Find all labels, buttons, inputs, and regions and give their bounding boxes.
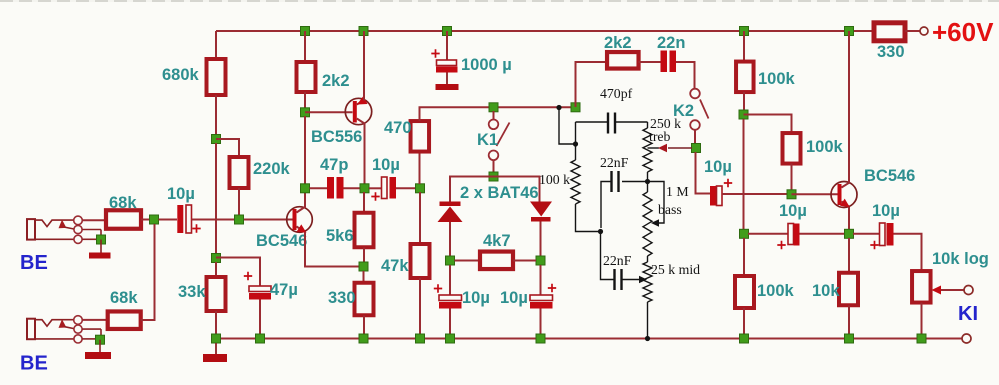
svg-text:47k: 47k [381,257,409,275]
node pot ground [917,334,926,343]
node P limiter right [536,256,545,265]
node black input dot [556,105,561,110]
wire node K down to R 47k [419,192,421,244]
svg-text:22n: 22n [657,34,685,52]
transistor Q1 collector lead [297,207,306,213]
node 47k ground [416,334,425,343]
wire node K up to R 470 [419,152,421,185]
wire jack1 tip to R 68k-1 [82,219,106,221]
ground main symbol [215,343,217,354]
wire jack2 tip to R 68k-2 [82,319,108,321]
wire 100k-2 to node R [791,164,793,195]
node T [740,229,749,238]
transistor Q3 BC546 circle [831,182,857,208]
capacitor 47u electrolytic [249,286,271,292]
node rail-1000u [443,27,452,36]
node Q treble wiper junction [692,144,701,153]
node black mid junction [598,229,603,234]
transistor Q3 emitter lead [842,202,850,207]
wire 680k to node A [215,95,217,139]
resistor 68k-2 [108,311,141,329]
wire 220k to node B [238,188,240,220]
wire C 22n to K2 [676,62,695,89]
transistor Q3 base bar [838,184,842,205]
node jack1 sleeve junction [97,235,106,244]
wire 100k-1 to node S [743,92,745,115]
resistor 250 k treb (black zigzag) [647,122,649,128]
wire node T to C 10u-6 [748,233,788,235]
wire Q1 collector up to node G [304,188,306,207]
wire node S down to node T [743,119,745,234]
svg-text:25 k mid: 25 k mid [651,262,700,277]
wire jack2 ground stub [99,340,101,352]
transistor Q1 emitter lead [297,227,306,233]
capacitor 10u-4 electrolytic [530,295,553,301]
wire 47k to rail [419,278,421,339]
input jack J1 (BE upper) [27,219,35,240]
resistor 330-1 [355,283,374,316]
wire node Q down to C 10u-5 [696,152,711,194]
capacitor 22nF upper [622,181,648,183]
svg-text:22nF: 22nF [603,253,632,268]
node rail-Q2emitter [359,27,368,36]
wire node I down to node G [304,116,306,188]
wire R 4k7 to node P [513,260,536,262]
svg-text:K1: K1 [477,131,498,149]
resistor 100 k (black zigzag) [571,160,580,204]
wire node L up to feedback branch [576,62,608,107]
wire black jog to 100k branch [559,108,576,145]
svg-text:2 x BAT46: 2 x BAT46 [460,184,539,202]
wire node C to C 47u [216,258,260,287]
wire R 470 top corner to tone input [420,107,576,121]
svg-text:BC556: BC556 [311,128,362,146]
switch K2 lower contact [690,120,700,130]
node black jog junction [573,141,578,146]
svg-text:10µ: 10µ [372,156,400,174]
wire jack1 ground stub [100,240,102,253]
node 47u ground [256,334,265,343]
input jack J2 (BE lower) [27,319,35,340]
resistor 2k2 feedback [607,52,639,69]
svg-text:10µ: 10µ [167,185,195,203]
wire 330-1 to rail [363,316,365,339]
node 10u-4 ground [536,334,545,343]
svg-text:47µ: 47µ [270,281,298,299]
capacitor 1000u electrolytic [437,60,457,66]
node jack2 sleeve junction [96,335,105,344]
svg-text:100 k: 100 k [539,172,570,187]
node G Q1 collector junction [301,184,310,193]
svg-text:10k: 10k [812,282,840,300]
wire node A to R 220k [216,139,239,157]
wire C 10u-6 to node U [800,233,846,235]
svg-text:10µ: 10µ [462,289,490,307]
wire treb wiper [648,147,660,149]
node rail-2k2 [301,27,310,36]
node 10u-3 ground [446,334,455,343]
resistor 68k-1 [106,210,141,229]
svg-text:2k2: 2k2 [604,34,632,52]
svg-text:680k: 680k [162,66,200,84]
svg-text:68k: 68k [110,289,138,307]
node A bias divider [212,135,221,144]
wire Q3 emitter down to node U [848,207,850,234]
capacitor 22n [661,51,668,73]
transistor Q2 base bar [353,101,357,123]
transistor Q1 BC546 circle [287,207,313,233]
pot wiper arrow [932,286,942,295]
wire limiter top rail [450,177,540,202]
wire node S to R 100k-2 [744,115,792,134]
wire C 10u-5 to node R [722,193,787,195]
wire node C to R 33k [215,262,217,277]
node I Q2 base junction [301,108,310,117]
svg-text:2k2: 2k2 [322,72,350,90]
wire 2k2 to node I [304,92,306,112]
wire node O to C 10u-3 [449,265,451,295]
node black J3 [645,179,650,184]
svg-text:1 M: 1 M [666,184,689,199]
svg-text:100k: 100k [757,282,795,300]
node U emitter junction [845,229,854,238]
resistor 25 k mid (black zigzag) [647,256,649,262]
svg-text:10µ: 10µ [704,158,732,176]
wire 25k to rail [647,302,649,339]
capacitor 10u-in electrolytic [177,205,183,233]
node B base junction [235,215,244,224]
transistor Q2 emitter lead (PNP arrow to bar) [357,100,365,105]
node 10k ground [845,334,854,343]
ground jack1 [89,253,111,259]
wire rail to C 1000u [446,31,448,60]
transistor Q1 base bar [293,209,297,230]
wire rail corner to R 680k [215,31,217,59]
svg-text:bass: bass [658,202,682,217]
resistor 4k7 [480,252,513,269]
wire Q2 collector down to node J [364,123,366,188]
svg-text:10k log: 10k log [932,250,989,268]
transistor Q3 collector lead [842,183,850,188]
svg-text:BC546: BC546 [256,232,307,250]
wire node P to C 10u-4 [540,265,542,295]
diode D1 BAT46 (cathode up) [440,202,461,207]
capacitor 10u-3 electrolytic [439,295,462,301]
svg-text:5k6: 5k6 [326,227,354,245]
svg-text:220k: 220k [253,160,291,178]
resistor 100k-2 [783,133,801,164]
svg-text:33k: 33k [178,283,206,301]
switch K1 upper contact [493,111,495,120]
resistor 100k-1 [736,62,754,93]
node D input sum [150,215,159,224]
switch K1 lower contact [489,151,499,161]
svg-text:10µ: 10µ [872,202,900,220]
svg-text:100k: 100k [806,138,844,156]
svg-text:10µ: 10µ [779,202,807,220]
ground jack2 [85,352,111,359]
node S bias mid [739,110,748,119]
capacitor 470pf branch [576,121,609,123]
node rail-Q3 [845,27,854,36]
wire 68k-2 up to node D [141,224,155,320]
wire rail to R 2k2 [304,31,306,62]
node L tone input [571,103,580,112]
node J Q2 collector junction [360,184,369,193]
diode D2 BAT46 (cathode down) [530,202,552,217]
svg-text:470pf: 470pf [600,86,633,101]
wire C 10u-7 to pot [894,234,922,271]
wire top +60V rail [216,30,874,32]
wire black 100k branch lower [576,204,601,232]
wire C 47u to rail [259,300,261,339]
resistor 470 [411,121,430,152]
node O limiter left [446,256,455,265]
svg-text:100k: 100k [758,70,796,88]
capacitor 10u-2 electrolytic [369,187,382,189]
wire C 10u-3 to rail [449,309,451,339]
svg-text:330: 330 [877,43,905,61]
capacitor 10u-6 electrolytic [788,224,794,245]
resistor 680k [207,59,226,95]
wire node U to R 10k [848,238,850,273]
wire node O to R 4k7 [455,260,481,262]
wire 5k6 to node H [363,248,365,267]
ground 1000u [436,84,459,90]
svg-text:4k7: 4k7 [483,232,511,250]
resistor 5k6 [355,213,374,248]
wire Q1 emitter down and right to node H [305,232,364,267]
resistor 330 supply [874,23,905,41]
wire pot to rail [921,303,923,339]
capacitor 47p [327,177,334,199]
wire C 10u-4 to rail [540,309,542,339]
node M K1 tap [489,103,498,112]
node R Q3 base junction [787,190,796,199]
wire node T to R 100k-3 [743,238,745,276]
resistor 1 M bass (black zigzag) [647,182,649,193]
wire node A down to node C [215,143,217,258]
svg-text:BE: BE [20,353,48,375]
wire C 10u-in to Q1 base [192,219,293,221]
node 100k-3 ground [740,334,749,343]
node K divider junction [416,184,425,193]
wire 330 to +60V terminal [905,30,920,32]
switch K2 blade [700,100,709,119]
wire bottom ground rail [216,338,962,340]
wire 250k to node J3 [647,172,649,182]
resistor 100k-3 [735,276,754,308]
svg-text:68k: 68k [109,194,137,212]
capacitor 10u-5 electrolytic [710,186,716,206]
terminal +60V circle [920,27,928,35]
svg-text:+60V: +60V [932,17,994,47]
svg-text:22nF: 22nF [600,155,629,170]
switch K2 upper contact [690,89,700,99]
svg-text:treb: treb [649,129,671,144]
wire node I to Q2 base [305,111,353,113]
svg-text:10µ: 10µ [500,289,528,307]
node C filter junction [212,254,221,263]
node 33k ground [212,334,221,343]
transistor Q2 BC556 circle [345,98,371,124]
resistor 220k [230,157,249,188]
wire black 100k branch upper [575,122,577,160]
switch K1 blade [497,123,510,147]
svg-text:KI: KI [958,303,978,325]
svg-text:330: 330 [328,289,356,307]
terminal KI wiper circle [964,286,973,295]
wire 33k to rail [215,311,217,339]
transistor Q2 collector lead [357,119,365,124]
wire Q3 collector up to rail [848,31,850,183]
node N limiter top [489,172,498,181]
node 330-1 ground [359,334,368,343]
svg-text:47p: 47p [320,156,348,174]
wire node R to Q3 base [792,193,838,195]
wire 2k2fb to C 22n [639,61,661,63]
wire node D to C 10u-in [159,219,178,221]
resistor 47k [411,244,430,278]
capacitor 22nF lower [601,232,615,280]
wire node H to R 330-1 [363,271,365,283]
svg-text:470: 470 [384,119,412,137]
wire node J to R 5k6 [363,192,365,213]
svg-text:1000 µ: 1000 µ [461,56,512,74]
wire rail to R 100k-1 [743,31,745,62]
wire node U to C 10u-7 [853,233,880,235]
svg-text:BC546: BC546 [864,167,915,185]
wire 68k-1 to node D [141,219,154,221]
wire Q2 emitter up to rail [363,31,365,101]
resistor 2k2 vertical [297,62,316,92]
wire 100k-3 to rail [743,308,745,339]
node H feedback junction [359,262,368,271]
node rail-100k [740,27,749,36]
wire 10k to rail [848,306,850,339]
capacitor 10u-7 electrolytic [880,223,886,246]
node black ground dot [645,336,650,341]
potentiometer 10k log [912,271,931,303]
resistor 10k [839,273,858,306]
wire bass wiper bypass [648,182,665,224]
svg-text:BE: BE [20,252,48,274]
terminal ground circle [962,334,971,343]
resistor 33k [207,277,226,311]
